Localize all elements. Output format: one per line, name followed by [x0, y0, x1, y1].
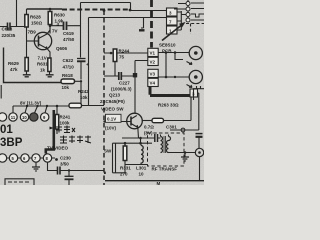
svg-text:M: M: [157, 181, 161, 185]
svg-text:0.1V: 0.1V: [107, 117, 116, 122]
svg-text:11: 11: [11, 115, 16, 120]
svg-text:47k: 47k: [10, 67, 18, 72]
svg-text:VIDEO SW: VIDEO SW: [101, 107, 124, 112]
svg-text:7B9: 7B9: [28, 30, 37, 35]
svg-text:47/50: 47/50: [63, 37, 75, 42]
svg-text:R629: R629: [8, 61, 19, 66]
svg-text:SE8S10: SE8S10: [159, 43, 176, 48]
svg-text:2SC945(P0): 2SC945(P0): [100, 99, 125, 104]
svg-text:R241: R241: [60, 115, 71, 120]
svg-text:R630: R630: [54, 13, 65, 18]
svg-text:C227: C227: [119, 81, 130, 86]
svg-text:V1: V1: [150, 51, 156, 56]
svg-text:C619: C619: [63, 31, 74, 36]
svg-text:3/50: 3/50: [60, 162, 69, 167]
svg-text:10: 10: [22, 115, 27, 120]
svg-text:C230: C230: [60, 156, 71, 161]
svg-text:8V (11.3V): 8V (11.3V): [20, 101, 42, 106]
svg-text:R242: R242: [78, 89, 89, 94]
svg-text:100k: 100k: [60, 121, 71, 126]
svg-text:V2: V2: [150, 60, 156, 65]
svg-text:01: 01: [0, 124, 13, 136]
svg-text:220/35: 220/35: [2, 33, 16, 38]
svg-text:(8V): (8V): [144, 131, 153, 136]
svg-text:75: 75: [119, 55, 125, 60]
svg-text:(1000/6.3): (1000/6.3): [111, 87, 132, 92]
svg-text:3BP: 3BP: [0, 137, 23, 149]
svg-text:(10V): (10V): [105, 126, 117, 131]
svg-text:150Ω: 150Ω: [31, 21, 43, 26]
svg-text:L301: L301: [136, 166, 147, 171]
svg-text:Q606: Q606: [56, 46, 68, 51]
svg-text:1k: 1k: [40, 68, 46, 73]
svg-text:SW: SW: [104, 149, 112, 154]
svg-text:7V: 7V: [52, 29, 58, 34]
svg-text:10: 10: [139, 172, 145, 177]
svg-text:0.7Ω: 0.7Ω: [144, 125, 154, 130]
svg-text:47/10: 47/10: [63, 65, 75, 70]
svg-text:PCB: PCB: [162, 49, 172, 54]
svg-text:R618: R618: [62, 73, 73, 78]
svg-text:C301: C301: [166, 125, 177, 130]
svg-text:R631: R631: [37, 62, 48, 67]
svg-text:C622: C622: [63, 58, 74, 63]
svg-text:TV/VIDEO: TV/VIDEO: [47, 146, 69, 151]
svg-text:R331: R331: [120, 166, 131, 171]
svg-text:10k: 10k: [80, 95, 88, 100]
svg-text:10k: 10k: [62, 85, 70, 90]
svg-text:+: +: [86, 62, 89, 67]
svg-text:V4: V4: [150, 81, 156, 86]
svg-text:RF TRANSF: RF TRANSF: [152, 167, 178, 172]
svg-text:R628: R628: [30, 15, 41, 20]
svg-text:270: 270: [120, 172, 128, 177]
svg-text:R263 33Ω: R263 33Ω: [158, 103, 179, 108]
svg-text:7.1V: 7.1V: [38, 56, 47, 61]
svg-text:V3: V3: [150, 72, 156, 77]
svg-text:R244: R244: [119, 49, 130, 54]
svg-text:Q213: Q213: [109, 93, 121, 98]
svg-text:C618: C618: [2, 27, 13, 32]
